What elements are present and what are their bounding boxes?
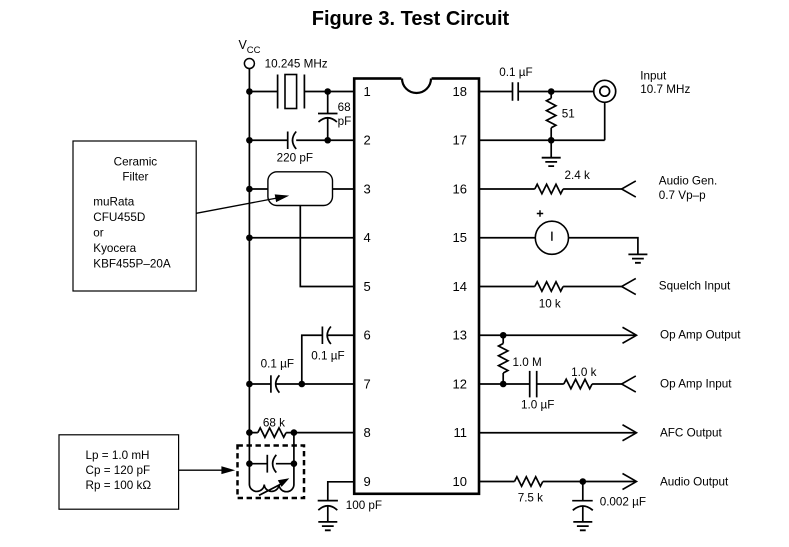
svg-text:0.1 µF: 0.1 µF bbox=[261, 358, 294, 371]
svg-text:13: 13 bbox=[453, 328, 467, 343]
svg-text:Audio Output: Audio Output bbox=[660, 476, 729, 489]
svg-text:CFU455D: CFU455D bbox=[93, 211, 145, 224]
svg-text:51: 51 bbox=[562, 108, 575, 121]
svg-text:10.7 MHz: 10.7 MHz bbox=[640, 83, 690, 96]
svg-text:5: 5 bbox=[364, 279, 371, 294]
svg-text:1.0 M: 1.0 M bbox=[513, 356, 542, 369]
svg-text:Audio Gen.: Audio Gen. bbox=[659, 175, 717, 188]
svg-text:0.1 µF: 0.1 µF bbox=[499, 66, 532, 79]
svg-text:9: 9 bbox=[364, 474, 371, 489]
svg-text:8: 8 bbox=[364, 425, 371, 440]
svg-text:18: 18 bbox=[453, 84, 467, 99]
svg-text:Op Amp Output: Op Amp Output bbox=[660, 329, 741, 342]
svg-text:16: 16 bbox=[453, 181, 467, 196]
svg-text:AFC Output: AFC Output bbox=[660, 427, 722, 440]
svg-text:Squelch Input: Squelch Input bbox=[659, 279, 731, 292]
svg-text:17: 17 bbox=[453, 133, 467, 148]
svg-text:pF: pF bbox=[338, 115, 352, 128]
svg-text:or: or bbox=[93, 227, 104, 240]
svg-text:muRata: muRata bbox=[93, 196, 134, 209]
svg-text:68: 68 bbox=[338, 101, 351, 114]
svg-text:7.5 k: 7.5 k bbox=[518, 492, 543, 505]
svg-text:2.4 k: 2.4 k bbox=[565, 169, 590, 182]
svg-text:CC: CC bbox=[247, 45, 261, 56]
svg-text:Cp = 120 pF: Cp = 120 pF bbox=[86, 464, 151, 477]
svg-text:10 k: 10 k bbox=[539, 298, 561, 311]
svg-text:Figure 3. Test Circuit: Figure 3. Test Circuit bbox=[312, 8, 510, 30]
svg-text:Filter: Filter bbox=[122, 171, 148, 184]
svg-text:14: 14 bbox=[453, 279, 467, 294]
svg-text:100 pF: 100 pF bbox=[346, 499, 382, 512]
svg-text:0.1 µF: 0.1 µF bbox=[311, 350, 344, 363]
svg-text:Ceramic: Ceramic bbox=[114, 156, 158, 169]
svg-text:0.002 µF: 0.002 µF bbox=[600, 496, 646, 509]
svg-text:220 pF: 220 pF bbox=[277, 152, 313, 165]
svg-text:1: 1 bbox=[364, 84, 371, 99]
svg-text:Kyocera: Kyocera bbox=[93, 242, 136, 255]
svg-text:2: 2 bbox=[364, 133, 371, 148]
svg-text:68 k: 68 k bbox=[263, 417, 285, 430]
svg-text:10: 10 bbox=[453, 474, 467, 489]
svg-text:0.7 Vp–p: 0.7 Vp–p bbox=[659, 189, 706, 202]
svg-text:Op Amp Input: Op Amp Input bbox=[660, 378, 732, 391]
svg-text:11: 11 bbox=[454, 425, 468, 440]
svg-text:1.0 k: 1.0 k bbox=[571, 366, 596, 379]
svg-text:10.245 MHz: 10.245 MHz bbox=[265, 58, 328, 71]
svg-text:4: 4 bbox=[364, 230, 371, 245]
svg-text:KBF455P–20A: KBF455P–20A bbox=[93, 258, 171, 271]
svg-text:1.0 µF: 1.0 µF bbox=[521, 399, 554, 412]
svg-text:Input: Input bbox=[640, 69, 667, 82]
svg-text:15: 15 bbox=[453, 230, 467, 245]
svg-text:Lp = 1.0 mH: Lp = 1.0 mH bbox=[86, 449, 150, 462]
svg-text:12: 12 bbox=[453, 376, 467, 391]
svg-text:Rp = 100 kΩ: Rp = 100 kΩ bbox=[86, 479, 152, 492]
svg-text:6: 6 bbox=[364, 328, 371, 343]
svg-text:7: 7 bbox=[364, 376, 371, 391]
svg-text:3: 3 bbox=[364, 181, 371, 196]
